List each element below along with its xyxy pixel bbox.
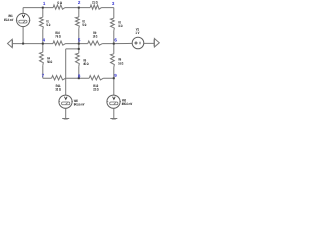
- svg-text:50 Ω: 50 Ω: [82, 23, 86, 27]
- svg-text:651.6 mV: 651.6 mV: [4, 18, 14, 22]
- svg-text:6: 6: [114, 37, 117, 42]
- svg-text:22 Ω: 22 Ω: [93, 88, 99, 92]
- svg-text:32 Ω: 32 Ω: [55, 88, 61, 92]
- svg-text:21 Ω: 21 Ω: [92, 1, 98, 5]
- svg-text:56 Ω: 56 Ω: [47, 60, 52, 64]
- svg-text:5 Ω: 5 Ω: [57, 1, 62, 5]
- svg-text:2: 2: [78, 0, 81, 5]
- svg-text:3: 3: [112, 1, 115, 6]
- svg-text:76 Ω: 76 Ω: [55, 35, 61, 39]
- svg-text:9: 9: [114, 73, 117, 78]
- svg-text:10 Ω: 10 Ω: [93, 35, 98, 39]
- svg-text:941.6 mV: 941.6 mV: [74, 102, 85, 106]
- svg-text:5: 5: [78, 37, 81, 42]
- svg-text:1: 1: [43, 1, 46, 6]
- svg-text:7: 7: [42, 73, 45, 78]
- svg-text:51 Ω: 51 Ω: [46, 23, 50, 27]
- svg-text:4: 4: [43, 37, 46, 42]
- svg-text:16 Ω: 16 Ω: [118, 24, 122, 28]
- svg-text:16 Ω: 16 Ω: [118, 61, 123, 65]
- svg-text:8: 8: [78, 73, 81, 78]
- svg-text:45 Ω: 45 Ω: [83, 62, 89, 66]
- svg-text:885.6 mV: 885.6 mV: [122, 102, 133, 106]
- svg-text:1 V: 1 V: [135, 31, 140, 35]
